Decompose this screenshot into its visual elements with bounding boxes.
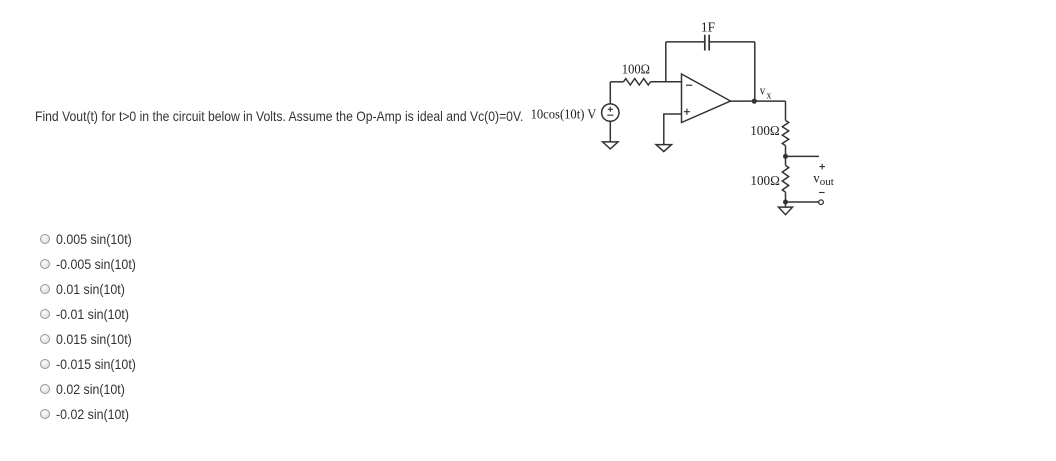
op-amp U1: [682, 74, 731, 123]
wire R3 to bottom node: [785, 192, 787, 202]
wire feedback top left: [666, 41, 705, 43]
wire vx down to R2: [785, 101, 787, 120]
minus sign vout: [819, 192, 825, 194]
wire source bottom: [609, 121, 611, 142]
wire feedback vertical left: [665, 42, 667, 82]
node bottom dot: [783, 200, 788, 205]
label vout: [813, 172, 834, 189]
svg-text:1F: 1F: [701, 21, 715, 36]
resistor R3 100ohm: [782, 165, 788, 192]
op-amp minus pin label: [686, 84, 692, 86]
wire R1 to op-amp inverting input: [651, 81, 682, 83]
wire source top: [609, 82, 611, 104]
svg-text:10cos(10t) V: 10cos(10t) V: [531, 107, 597, 122]
svg-text:v: v: [760, 83, 766, 98]
node middle dot: [783, 154, 788, 159]
node vx dot: [752, 99, 757, 104]
ground G2: [656, 145, 671, 152]
resistor R1 100ohm: [624, 79, 651, 85]
svg-text:v: v: [813, 172, 820, 187]
capacitor C1 1F: [705, 35, 709, 51]
wire source to R1: [610, 81, 623, 83]
svg-text:100Ω: 100Ω: [750, 174, 780, 189]
resistor R2 100ohm: [782, 120, 788, 145]
wire op-amp output: [731, 100, 786, 102]
svg-text:out: out: [820, 176, 834, 188]
wire feedback top right: [709, 41, 755, 43]
op-amp plus pin label: [684, 109, 690, 115]
ground G3: [779, 207, 793, 215]
svg-text:100Ω: 100Ω: [750, 124, 780, 139]
wire bottom node to terminal: [786, 201, 819, 203]
voltage source VS 10cos(10t) V: [602, 104, 619, 121]
wire bottom node to ground: [785, 202, 787, 207]
terminal open circle: [819, 200, 824, 205]
svg-text:100Ω: 100Ω: [622, 63, 650, 78]
wire non-inverting input: [664, 114, 682, 145]
ground G1: [603, 142, 618, 149]
wire R2 to middle node: [785, 146, 787, 166]
plus sign vout: [819, 164, 825, 170]
wire feedback vertical right: [754, 42, 756, 101]
svg-text:x: x: [767, 89, 772, 101]
wire middle node to vout+: [786, 155, 819, 157]
node label vx: [760, 83, 772, 102]
